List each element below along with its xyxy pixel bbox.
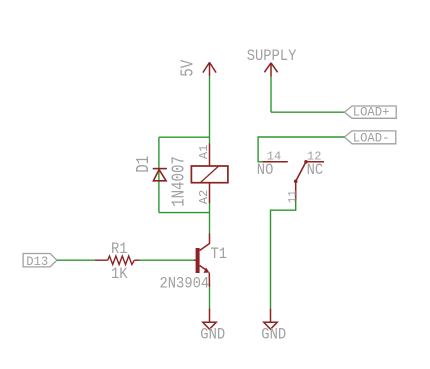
svg-text:LOAD+: LOAD+ [353, 105, 390, 119]
ground left [203, 308, 216, 329]
svg-text:D1: D1 [132, 156, 153, 173]
relay coil pin A2 [209, 183, 211, 203]
supply symbol SUPPLY [264, 63, 277, 77]
wire relay A2 to transistor collector [209, 203, 211, 234]
relay coil pin A1 [209, 144, 211, 167]
relay coil box [191, 166, 228, 183]
ground right [264, 308, 277, 329]
wire to LOAD+ [271, 111, 344, 113]
wire common to GND [271, 201, 296, 309]
svg-text:A2: A2 [197, 190, 211, 204]
supply symbol 5V [203, 62, 216, 76]
svg-text:1K: 1K [111, 266, 128, 283]
base pin [194, 259, 196, 261]
connector LOAD+ [344, 106, 396, 118]
wire R1 to base [140, 259, 195, 261]
resistor R1 [95, 256, 140, 265]
wire diode loop left [158, 137, 160, 212]
wire diode loop top [159, 136, 210, 138]
relay coil diagonal [200, 166, 218, 183]
svg-text:2N3904: 2N3904 [160, 276, 210, 293]
svg-text:SUPPLY: SUPPLY [247, 48, 297, 65]
relay contact pin 11 common [295, 181, 297, 200]
svg-text:T1: T1 [211, 246, 228, 263]
relay contact pin 14 NO [263, 161, 288, 163]
transistor T1 [194, 234, 210, 288]
wire diode loop bottom [159, 212, 210, 214]
connector D13 [23, 254, 57, 267]
svg-text:NC: NC [307, 162, 324, 179]
wire SUPPLY down [270, 77, 272, 113]
relay lever [294, 160, 308, 183]
svg-text:D13: D13 [26, 255, 48, 269]
svg-text:GND: GND [261, 327, 286, 344]
collector [200, 234, 210, 251]
svg-text:A1: A1 [197, 145, 211, 159]
base bar [196, 248, 200, 273]
emitter [200, 266, 207, 271]
svg-text:GND: GND [200, 327, 225, 344]
wire 5V to relay A1 [209, 76, 211, 144]
svg-text:NO: NO [257, 162, 274, 179]
svg-text:R1: R1 [111, 241, 128, 258]
svg-text:LOAD-: LOAD- [353, 131, 390, 145]
wire D13 to R1 [57, 259, 95, 261]
wire LOAD- to NO [258, 137, 344, 162]
svg-text:1N4007: 1N4007 [168, 156, 189, 207]
connector LOAD- [344, 131, 395, 144]
svg-text:5V: 5V [177, 60, 198, 77]
svg-text:11: 11 [287, 190, 299, 204]
wire emitter to GND [209, 287, 211, 308]
relay contact pin 12 NC [306, 161, 324, 163]
diode D1 [153, 169, 167, 181]
